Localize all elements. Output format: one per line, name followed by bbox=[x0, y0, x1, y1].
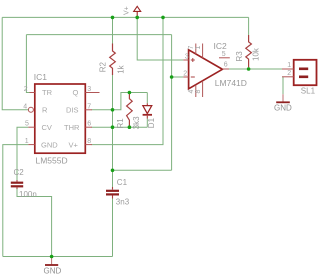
svg-text:DIS: DIS bbox=[66, 106, 79, 115]
svg-text:8: 8 bbox=[87, 138, 91, 145]
wire THR pin line to R1/D1 bottom bbox=[92, 126, 148, 128]
wire D1 top lead bbox=[146, 93, 148, 104]
svg-text:CV: CV bbox=[42, 123, 52, 132]
svg-text:R1: R1 bbox=[116, 118, 125, 129]
IC1 pin 3 lead bbox=[85, 92, 99, 94]
op-amp IC2 triangle bbox=[189, 50, 223, 89]
svg-text:2: 2 bbox=[183, 71, 187, 78]
wire IC1 pin 1 GND to ground rail bbox=[3, 145, 29, 257]
svg-text:6: 6 bbox=[87, 121, 91, 128]
svg-text:TR: TR bbox=[42, 88, 53, 97]
wire D1 bottom lead bbox=[146, 119, 148, 128]
svg-text:THR: THR bbox=[64, 123, 80, 132]
wire THR junction down to C1 top junction bbox=[112, 127, 114, 187]
op-amp minus mark bbox=[191, 76, 195, 78]
svg-text:3n3: 3n3 bbox=[116, 197, 130, 206]
op-amp bottom stub pin 8 bbox=[202, 81, 204, 97]
op-amp pin 5 stub bbox=[219, 57, 230, 59]
wire R2 column top bbox=[112, 17, 114, 43]
svg-text:R2: R2 bbox=[99, 62, 108, 73]
resistor R1 bbox=[127, 94, 133, 127]
wire op-amp output to SL1 pin 1 bbox=[229, 68, 282, 70]
IC1 pin 1 lead bbox=[28, 144, 34, 146]
op-amp top stub pin 7 bbox=[195, 44, 197, 55]
svg-text:R3: R3 bbox=[235, 51, 244, 62]
svg-text:8: 8 bbox=[195, 90, 202, 94]
svg-text:C2: C2 bbox=[14, 168, 25, 177]
V+ supply symbol bbox=[134, 6, 141, 11]
op-amp bottom stub pin 4 bbox=[195, 85, 197, 97]
wire TR rail bbox=[26, 34, 171, 36]
svg-text:R: R bbox=[42, 106, 48, 115]
svg-text:5: 5 bbox=[25, 121, 29, 128]
IC1 pin 4 bubble bbox=[28, 107, 33, 112]
wire plus input drop from V+ rail bbox=[137, 17, 183, 60]
svg-text:10k: 10k bbox=[252, 47, 261, 61]
svg-text:GND: GND bbox=[44, 267, 62, 276]
svg-text:LM555D: LM555D bbox=[36, 156, 68, 166]
IC1 box LM555D bbox=[35, 84, 86, 153]
svg-text:1: 1 bbox=[195, 46, 202, 50]
ground symbol bottom bbox=[51, 257, 53, 264]
svg-text:GND: GND bbox=[274, 104, 292, 113]
wire TR rail right drop to minus input and C1 line bbox=[171, 35, 173, 171]
capacitor C2 bbox=[16, 180, 18, 182]
wire DIS junction down to THR junction bbox=[112, 110, 114, 127]
svg-text:4: 4 bbox=[23, 103, 27, 110]
wire V+ left drop to pin 4 bbox=[2, 17, 28, 109]
op-amp output lead bbox=[222, 68, 229, 70]
svg-text:7: 7 bbox=[188, 46, 195, 50]
wire ground rail bbox=[3, 256, 113, 258]
svg-text:7: 7 bbox=[87, 103, 91, 110]
svg-text:3k3: 3k3 bbox=[132, 116, 141, 129]
SL1 pin 2 lead bbox=[282, 76, 294, 78]
svg-text:5: 5 bbox=[222, 51, 226, 58]
wire DIS pin staircase to R1/D1 top bbox=[92, 93, 148, 110]
svg-text:IC1: IC1 bbox=[34, 72, 48, 82]
svg-text:1k: 1k bbox=[116, 64, 125, 73]
svg-text:3: 3 bbox=[87, 86, 91, 93]
wire R3 bottom to output bbox=[248, 67, 250, 69]
op-amp top stub pin 1 bbox=[202, 44, 204, 58]
wire CV pin 5 to C2 bbox=[17, 127, 28, 180]
IC1 pin 8 lead bbox=[85, 144, 92, 146]
op-amp minus input lead bbox=[183, 76, 188, 78]
SL1 pin 1 lead bbox=[282, 68, 294, 70]
svg-text:4: 4 bbox=[188, 90, 195, 94]
SL1 pin 1 contact bbox=[299, 68, 308, 71]
svg-text:C1: C1 bbox=[117, 178, 128, 187]
svg-text:GND: GND bbox=[41, 140, 58, 149]
svg-text:1: 1 bbox=[25, 138, 29, 145]
wire minus input bbox=[172, 76, 184, 78]
wire C1 bottom to ground rail bbox=[112, 199, 114, 257]
capacitor C1 bbox=[112, 187, 114, 190]
svg-text:D1: D1 bbox=[147, 117, 156, 128]
svg-text:Q: Q bbox=[73, 88, 79, 97]
svg-text:V+: V+ bbox=[124, 6, 131, 15]
connector SL1 box bbox=[294, 60, 317, 85]
svg-text:V+: V+ bbox=[69, 140, 79, 149]
IC1 pin 7 lead bbox=[85, 109, 92, 111]
resistor R2 bbox=[110, 44, 116, 76]
wire TR drop to pin 2 bbox=[26, 35, 30, 93]
svg-text:SL1: SL1 bbox=[301, 86, 316, 95]
svg-text:6: 6 bbox=[224, 62, 228, 69]
wire SL1 pin 2 to GND bbox=[282, 77, 284, 95]
svg-text:2: 2 bbox=[24, 86, 28, 93]
op-amp plus mark bbox=[191, 58, 195, 62]
wire V+ to IC1 pin 8 bbox=[92, 17, 164, 144]
svg-text:100n: 100n bbox=[19, 190, 37, 199]
SL1 pin 2 contact bbox=[299, 76, 308, 79]
IC1 pin 5 lead bbox=[28, 126, 34, 128]
svg-text:LM741D: LM741D bbox=[215, 78, 247, 88]
wire C1 junction to minus drop bbox=[113, 169, 172, 171]
svg-text:IC2: IC2 bbox=[214, 41, 228, 51]
svg-text:2: 2 bbox=[287, 70, 291, 77]
diode D1 bbox=[146, 103, 148, 105]
op-amp plus input lead bbox=[183, 59, 188, 61]
ground symbol at SL1 bbox=[282, 94, 284, 101]
svg-text:3: 3 bbox=[185, 53, 189, 60]
IC1 pin 6 lead bbox=[85, 126, 92, 128]
junction node dots bbox=[50, 16, 251, 259]
resistor R3 bbox=[246, 35, 252, 67]
IC1 pin 2 lead bbox=[30, 92, 35, 94]
wire V+ top rail bbox=[2, 16, 248, 18]
wire C2 bottom to ground rail bbox=[17, 189, 52, 257]
svg-text:1: 1 bbox=[287, 62, 291, 69]
wire R3 top from V+ rail bbox=[248, 17, 250, 35]
wire R2 bottom to DIS junction bbox=[112, 75, 114, 110]
